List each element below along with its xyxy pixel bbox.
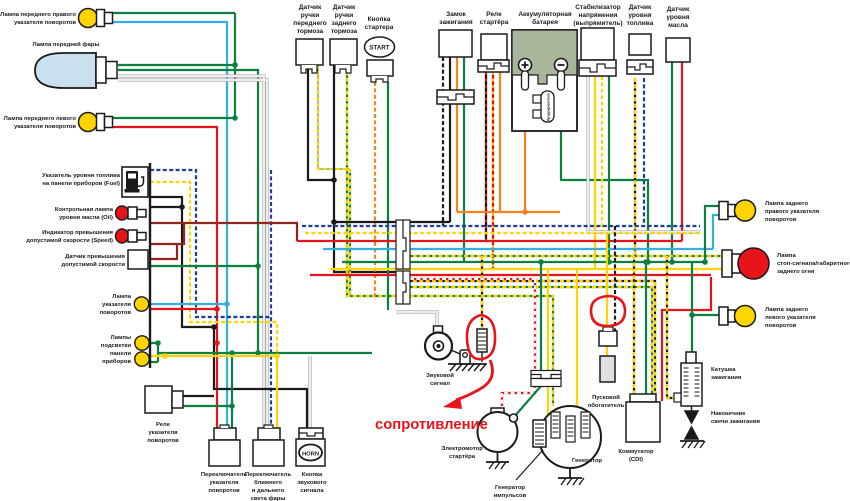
wire navy dashed panel loop to dimmer switch bbox=[150, 170, 271, 317]
annotation arrow impulse generator bbox=[516, 450, 543, 480]
wire black panel branch bbox=[150, 206, 182, 208]
wire orange ignition lock bbox=[456, 57, 458, 212]
wire black-yellow dashed fuel sensor bbox=[634, 78, 636, 256]
node green junction stabilizer bbox=[606, 259, 612, 265]
svg-text:сопротивление: сопротивление bbox=[375, 417, 488, 433]
node green junction bus bbox=[229, 350, 235, 356]
svg-text:Датчикуровнямасла: Датчикуровнямасла bbox=[666, 6, 690, 29]
svg-text:Стабилизаторнапряжения(выпрями: Стабилизаторнапряжения(выпрямитель) bbox=[573, 3, 622, 27]
node black junction bundle bbox=[331, 219, 337, 225]
horn bbox=[425, 326, 470, 364]
wire light-blue turn indicator lamp bbox=[150, 303, 227, 305]
wire green vertical lamp common bbox=[234, 13, 236, 118]
button horn HORN bbox=[296, 428, 325, 466]
wire red-black dashed starter relay bbox=[485, 62, 487, 241]
instrument panel bus bbox=[149, 163, 151, 368]
wire black panel to horn button bbox=[150, 197, 307, 428]
svg-text:Кнопкастартера: Кнопкастартера bbox=[365, 16, 394, 31]
node black junction brake bbox=[331, 177, 337, 183]
spark plug cap arrow bbox=[685, 406, 698, 423]
wire black-white dashed choke feed bbox=[614, 226, 616, 331]
wire green rear-right turn lamp bbox=[705, 206, 719, 262]
wire yellow dashed panel loop bbox=[150, 182, 277, 400]
svg-text:START: START bbox=[369, 45, 389, 52]
wire black turn relay output bbox=[183, 395, 214, 397]
annotation red circle choke bbox=[591, 296, 625, 326]
wire red panel branch bbox=[150, 308, 217, 310]
wire red front-left turn lamp to turn switch bbox=[112, 127, 217, 428]
wire green turn relay output bbox=[183, 405, 232, 407]
svg-text:Предохранитель: Предохранитель bbox=[547, 93, 551, 121]
wire yellow panel lamps to dimmer switch bbox=[149, 355, 277, 357]
choke connector bbox=[599, 327, 617, 346]
wire red-white dashed bundle row bbox=[410, 278, 535, 280]
node light-blue junction bbox=[224, 301, 230, 307]
node red junction lower bbox=[214, 340, 220, 346]
wire green-yellow dashed main bundle bbox=[400, 255, 722, 257]
wire black-yellow dashed ignition coil loop bbox=[667, 256, 675, 398]
lamp rear right turn signal bbox=[719, 200, 756, 221]
voltage regulator rectifier bbox=[579, 28, 616, 76]
node red junction bbox=[214, 306, 220, 312]
sensor fuel level bbox=[627, 34, 653, 74]
lamp turn indicator bbox=[134, 297, 148, 311]
wire green to generator connector bbox=[540, 262, 542, 371]
wire navy dashed fuel sensor bbox=[643, 78, 645, 226]
sensor front brake lever bbox=[296, 39, 323, 73]
wire red main bundle upper bbox=[297, 240, 682, 242]
node green junction panel lamps bbox=[155, 340, 161, 346]
annotation red arrowhead bbox=[443, 397, 462, 409]
wire orange bus bbox=[457, 211, 560, 213]
wire yellow-red dashed starter relay bbox=[492, 62, 494, 269]
svg-text:Лампа передней фары: Лампа передней фары bbox=[33, 41, 100, 48]
wire red oil sensor bbox=[681, 62, 683, 241]
wire green connector to motor eyelet bbox=[514, 386, 541, 417]
node black junction bbox=[211, 324, 217, 330]
wire red CDI to stop lamp bbox=[662, 277, 711, 401]
wire red main bundle lower bbox=[310, 274, 711, 276]
lamp headlight bbox=[35, 53, 117, 88]
lamp rear left turn signal bbox=[719, 306, 756, 327]
wire white stabilizer bbox=[586, 76, 589, 232]
wire green panel lamps horizontal bbox=[149, 343, 158, 362]
wire light-blue main bundle bbox=[323, 248, 713, 250]
wire gray horn button bbox=[308, 356, 311, 428]
lamp front right turn signal bbox=[79, 9, 113, 28]
svg-text:Датчикуровнятоплива: Датчикуровнятоплива bbox=[627, 4, 654, 27]
node green junction battery bbox=[645, 259, 651, 265]
wire yellow generator feed bbox=[576, 269, 578, 406]
speed sensor box bbox=[128, 250, 148, 269]
switch turn signal bbox=[209, 425, 240, 466]
resistor bbox=[477, 329, 487, 352]
wire black-white dashed ignition lock bbox=[442, 57, 444, 226]
wire light-blue front-right turn lamp vertical to turn switch bbox=[112, 22, 227, 428]
wire yellow-green dashed rear brake sensor to generator bbox=[347, 65, 553, 406]
node black junction panel bbox=[179, 204, 185, 210]
wire green lamp bus bbox=[158, 352, 372, 354]
wire dark-red oil lamp loop bbox=[150, 223, 184, 244]
wire green stabilizer bbox=[608, 76, 610, 262]
wire dark-red speed lamp to bundle bbox=[150, 223, 297, 241]
wire navy dashed dimmer switch vertical bbox=[270, 170, 272, 428]
node green junction relay bbox=[229, 403, 235, 409]
wire black brake to connector bbox=[334, 222, 396, 272]
node green junction headlight bbox=[232, 62, 238, 68]
wire green headlight lower to bundle bbox=[118, 70, 258, 353]
wire black main bundle bbox=[334, 221, 450, 223]
ground starter motor bbox=[486, 452, 509, 469]
fuel gauge icon bbox=[122, 167, 148, 197]
relay starter bbox=[478, 34, 509, 72]
node green junction y353 bbox=[255, 350, 261, 356]
button starter bbox=[365, 37, 395, 82]
connector harness middle upper bbox=[396, 220, 410, 269]
wire green front-right turn lamp bbox=[112, 12, 235, 14]
wire green rear-left turn lamp bbox=[692, 314, 719, 316]
wire green CDI bbox=[645, 262, 647, 394]
wire green battery negative bbox=[561, 90, 648, 262]
wire black-yellow dashed CDI feed bbox=[400, 281, 655, 394]
svg-text:HORN: HORN bbox=[302, 452, 319, 458]
wire green headlight upper bbox=[118, 64, 235, 66]
wire green ignition lock bbox=[463, 57, 465, 262]
starter motor bbox=[478, 408, 518, 452]
svg-text:Генератор: Генератор bbox=[572, 458, 602, 464]
wire green panel to turn switch bbox=[150, 265, 258, 267]
wire dark-red speed lamp loop bbox=[150, 244, 177, 259]
indicator lamp oil bbox=[116, 206, 147, 220]
node green junction connector bbox=[538, 259, 544, 265]
lamp front left turn signal bbox=[79, 113, 113, 132]
ignition coil bbox=[674, 352, 702, 406]
wire yellow-green dashed front brake sensor bbox=[318, 65, 350, 169]
wire orange dashed starter button bbox=[374, 82, 376, 300]
wire green-yellow dashed CDI feed bbox=[400, 287, 652, 394]
ground horn bbox=[448, 364, 487, 371]
node green junction coil bbox=[689, 312, 695, 318]
wire resistor ground lead bbox=[481, 352, 483, 362]
wire black-yellow dashed CDI left bbox=[633, 256, 635, 394]
wire red-white dashed starter motor bbox=[502, 279, 535, 409]
node green junction oil sensor bbox=[669, 259, 675, 265]
wire green starter button bbox=[387, 82, 389, 310]
wire black ignition lock to bundle bbox=[449, 57, 451, 222]
connector harness middle lower bbox=[396, 271, 410, 304]
node green junction headlight drop bbox=[255, 263, 261, 269]
choke starter enrichener bbox=[600, 356, 615, 382]
ignition lock bbox=[437, 30, 474, 104]
wire black front brake sensor bbox=[308, 65, 334, 180]
wire yellow dashed main bundle bbox=[305, 232, 700, 234]
wire black-yellow dashed resistor feed bbox=[481, 256, 483, 328]
indicator lamp speed bbox=[116, 229, 147, 243]
node yellow junction dimmer bbox=[274, 353, 280, 359]
node green junction left lamp bbox=[232, 115, 238, 121]
node green junction rear bbox=[702, 259, 708, 265]
node yellow junction panel lamps bbox=[162, 353, 168, 359]
annotation red arrow bbox=[456, 360, 492, 400]
wire green ignition coil bbox=[691, 262, 693, 352]
switch headlight dimmer bbox=[253, 425, 284, 466]
lamp panel backlight 1 bbox=[135, 336, 149, 350]
wire white bundle row bbox=[588, 230, 700, 233]
lamp stop and tail bbox=[722, 248, 769, 279]
wire yellow choke feed bbox=[606, 233, 608, 356]
sensor rear brake lever bbox=[330, 39, 357, 73]
wire green main bundle bbox=[342, 261, 705, 263]
lamp panel backlight 2 bbox=[135, 352, 149, 366]
ground spark plug bbox=[680, 427, 705, 448]
wire light-blue rear-right turn lamp bbox=[713, 215, 719, 249]
wire navy dashed main bundle bbox=[302, 225, 700, 227]
wire green front-left turn lamp bbox=[112, 117, 235, 119]
wire yellow stabilizer 1 bbox=[594, 76, 596, 269]
wire green turn switch drop bbox=[231, 353, 233, 428]
wire yellow stabilizer 2 bbox=[601, 76, 603, 233]
annotation red circle resistor bbox=[467, 315, 495, 359]
connector generator pair bbox=[531, 371, 561, 387]
node green junction CDI bbox=[643, 259, 649, 265]
wire orange battery positive bbox=[525, 90, 533, 212]
wire yellow dimmer switch drop bbox=[276, 356, 278, 428]
sensor oil level bbox=[666, 38, 690, 62]
CDI unit bbox=[626, 394, 660, 442]
wire orange starter relay bbox=[499, 62, 501, 212]
wire green oil sensor bbox=[671, 62, 673, 262]
generator bbox=[539, 406, 601, 468]
node orange junction bbox=[522, 209, 528, 215]
impulse generator bbox=[533, 420, 546, 447]
battery bbox=[512, 30, 577, 131]
svg-text:Датчикручкизаднеготормоза: Датчикручкизаднеготормоза bbox=[331, 4, 358, 35]
ground generator bbox=[558, 468, 584, 485]
wire yellow to impulse generator bbox=[547, 269, 549, 421]
wire black rear brake sensor to bundle bbox=[333, 65, 335, 222]
relay turn signal bbox=[145, 386, 183, 413]
wire white headlight pair to dimmer switch bbox=[118, 76, 267, 428]
wire yellow main bundle bbox=[330, 268, 722, 270]
wire gray horn feed bbox=[396, 312, 437, 327]
